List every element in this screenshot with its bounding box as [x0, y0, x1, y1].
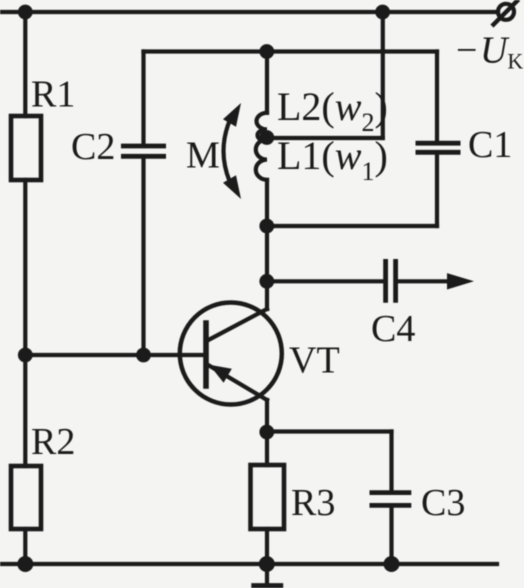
svg-text:R1: R1: [31, 74, 75, 116]
svg-text:R2: R2: [31, 421, 75, 463]
svg-text:VT: VT: [289, 340, 340, 382]
svg-text:C4: C4: [371, 308, 415, 350]
svg-text:C1: C1: [468, 124, 512, 166]
svg-text:C3: C3: [421, 482, 465, 524]
svg-text:M: M: [186, 135, 220, 177]
svg-text:R3: R3: [291, 482, 335, 524]
svg-text:C2: C2: [71, 126, 115, 168]
